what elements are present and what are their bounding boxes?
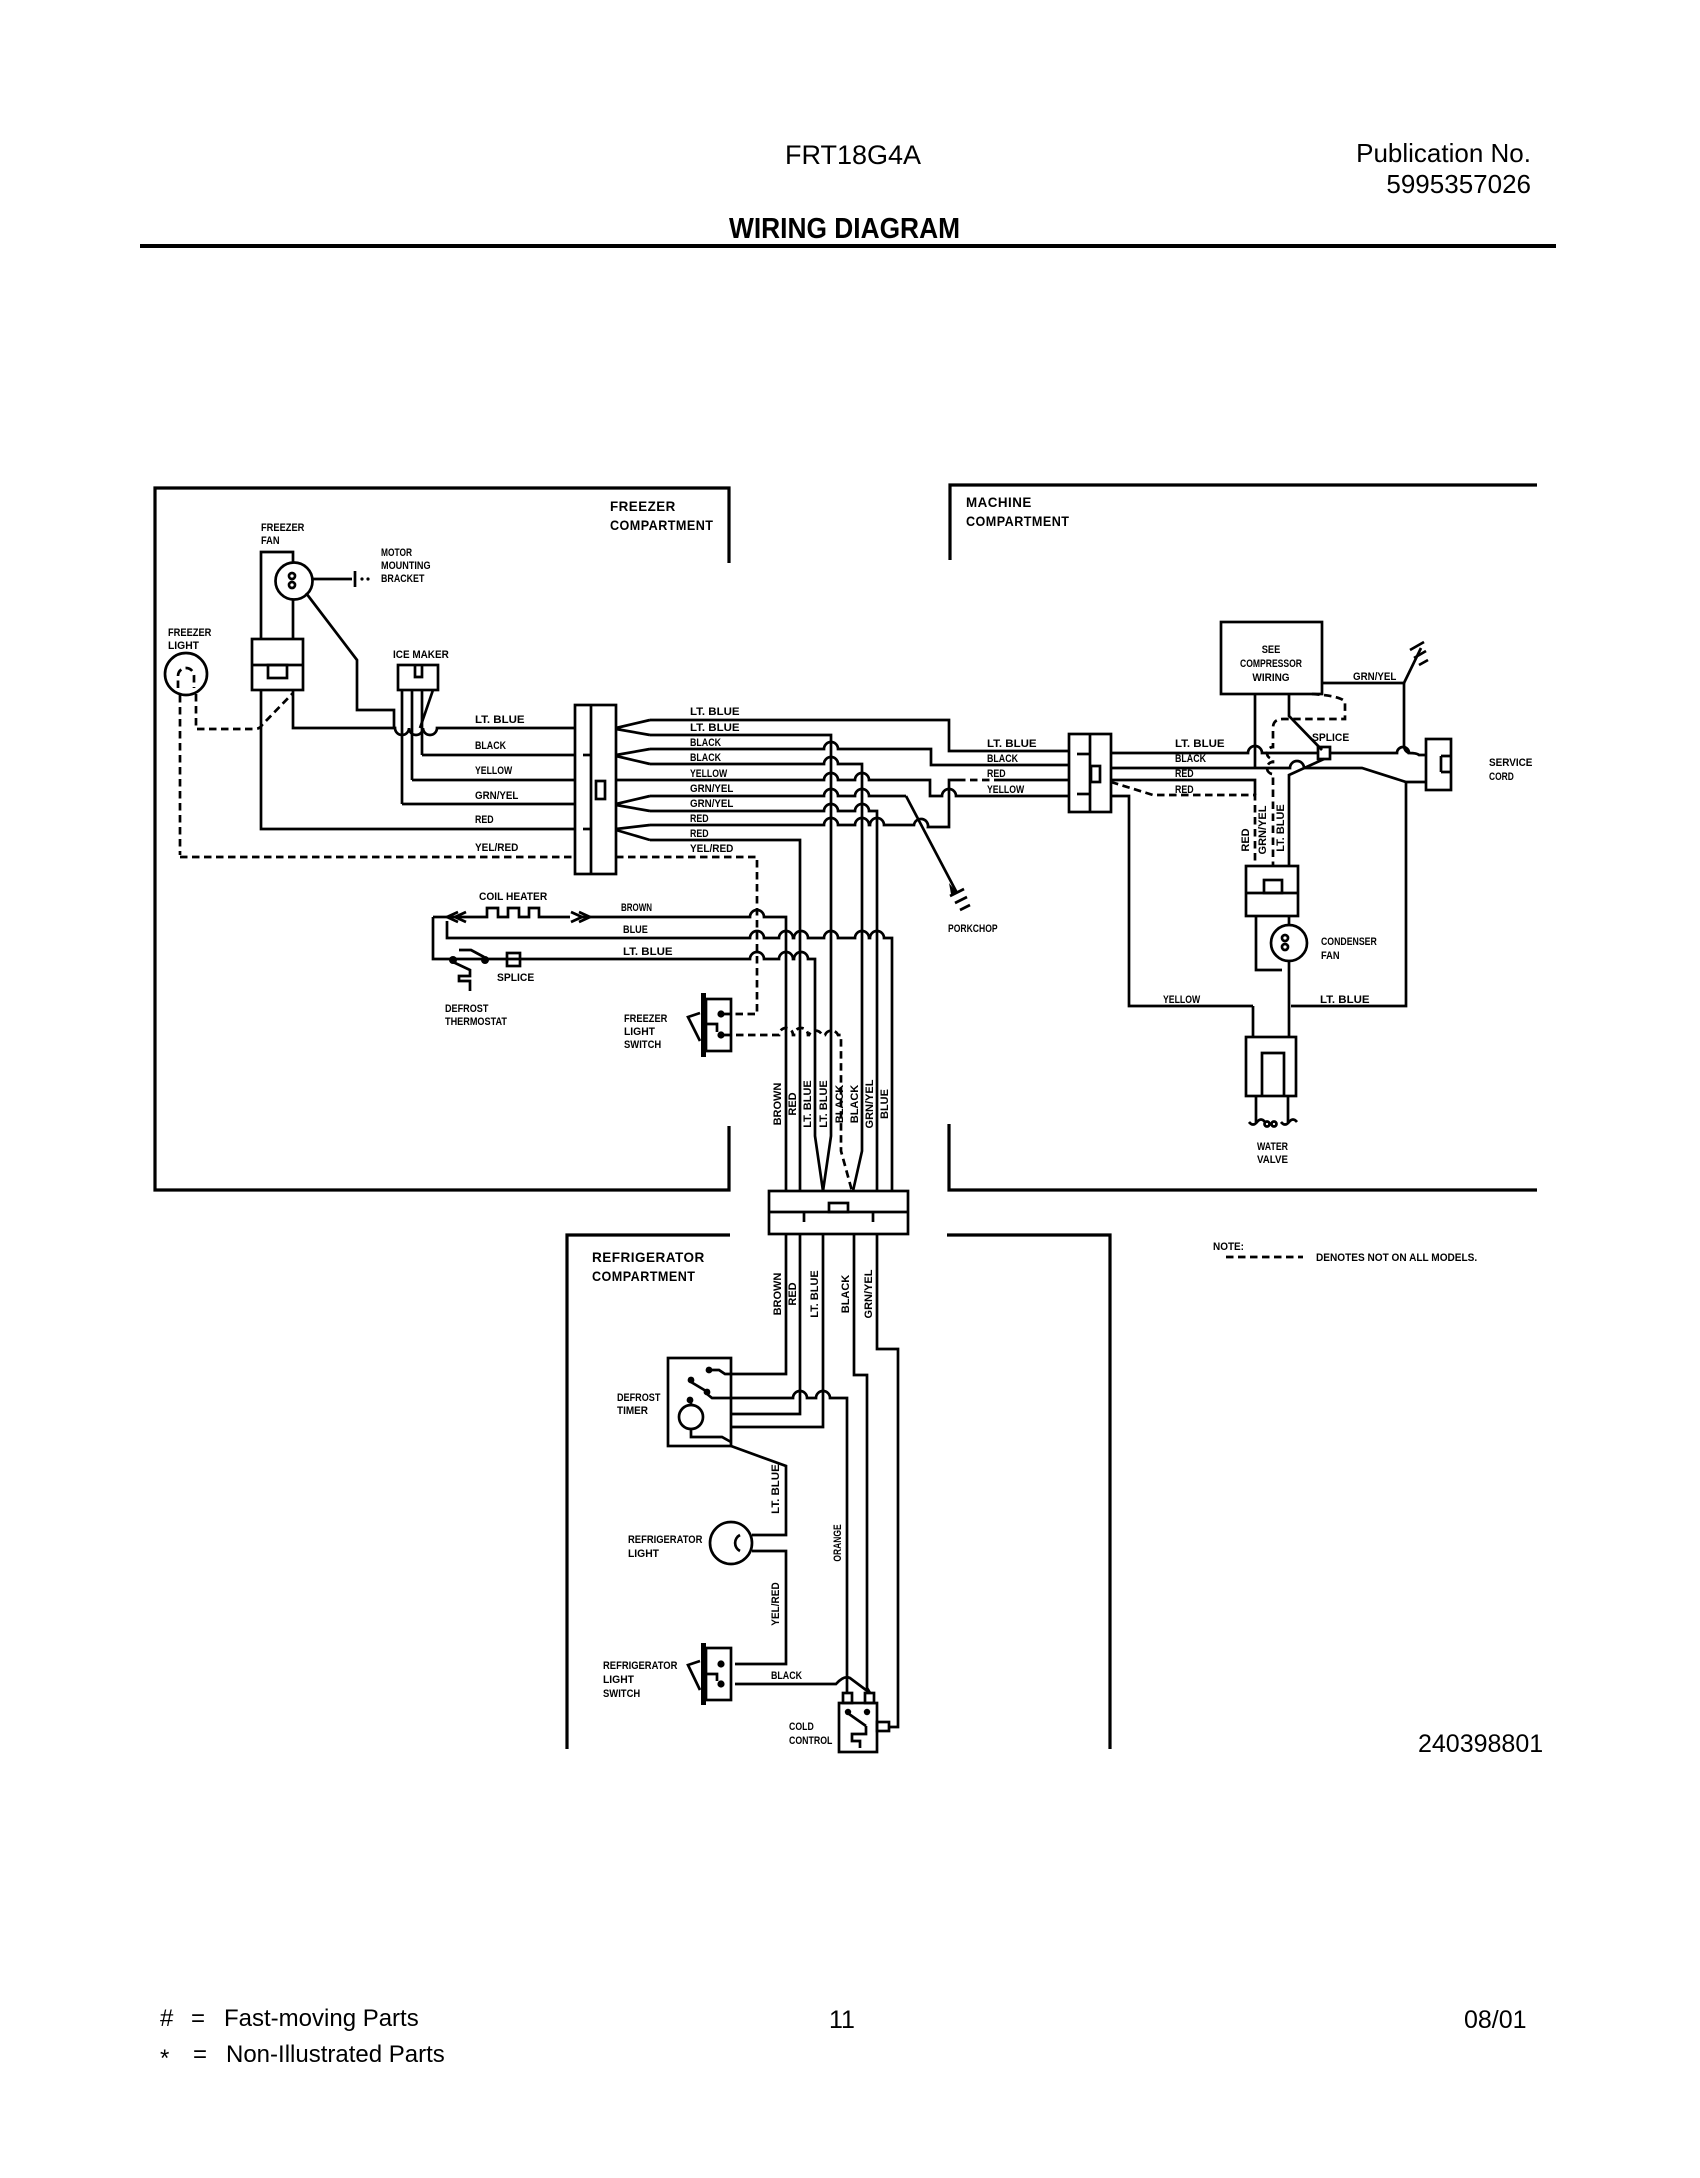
svg-text:DEFROST: DEFROST [445, 1003, 489, 1015]
svg-text:FREEZER: FREEZER [610, 498, 676, 514]
wire GRN/YEL 2 down to bundle [650, 804, 877, 1191]
wire YELLOW inner loop [1111, 796, 1253, 1006]
svg-text:YEL/RED: YEL/RED [475, 842, 518, 854]
svg-text:FAN: FAN [1321, 950, 1340, 962]
wire GRN/YEL 1 to porkchop [650, 789, 906, 796]
svg-text:YELLOW: YELLOW [475, 765, 513, 777]
coil heater element [447, 908, 570, 917]
svg-text:LIGHT: LIGHT [624, 1026, 655, 1038]
wire YEL/RED freezer run (dashed) [180, 856, 575, 859]
svg-text:ORANGE: ORANGE [832, 1524, 844, 1561]
dashed wire freezer light to YEL/RED run [179, 695, 182, 855]
svg-text:GRN/YEL: GRN/YEL [863, 1269, 875, 1318]
svg-text:BLUE: BLUE [623, 924, 648, 936]
wire LT. BLUE splice run [1111, 746, 1318, 753]
wire LT.BLUE 2 down to bundle [650, 735, 831, 1191]
svg-text:Non-Illustrated Parts: Non-Illustrated Parts [226, 2041, 445, 2068]
FREEZER LIGHT SWITCH [701, 993, 706, 1057]
wire YELLOW freezer run [412, 779, 575, 782]
svg-text:MOTOR: MOTOR [381, 547, 412, 559]
wire LT. BLUE freezer run [293, 690, 575, 735]
motor wire to ice maker [306, 593, 394, 728]
svg-text:240398801: 240398801 [1418, 1730, 1543, 1758]
wire BLUE to bundle [447, 921, 892, 1191]
svg-text:#: # [160, 2005, 174, 2032]
svg-text:11: 11 [829, 2006, 855, 2034]
svg-text:PORKCHOP: PORKCHOP [948, 923, 998, 935]
svg-text:LT. BLUE: LT. BLUE [770, 1464, 782, 1514]
wire BLACK freezer run [422, 754, 575, 757]
wire LT. BLUE below connector [731, 1234, 823, 1427]
bundle rotated labels [772, 1079, 891, 1128]
wire RED 2 down to bundle [650, 840, 800, 1191]
condenser fan [1271, 925, 1307, 961]
svg-text:LT. BLUE: LT. BLUE [1175, 738, 1225, 750]
dashed wire switch to BLACK bundle [724, 1028, 852, 1191]
svg-text:CORD: CORD [1489, 771, 1514, 783]
title rule [140, 244, 1556, 248]
svg-text:RED: RED [1175, 768, 1194, 780]
svg-text:CONTROL: CONTROL [789, 1735, 833, 1747]
svg-text:VALVE: VALVE [1257, 1154, 1288, 1166]
svg-text:NOTE:: NOTE: [1213, 1241, 1244, 1253]
svg-text:RED: RED [475, 814, 494, 826]
svg-text:Fast-moving Parts: Fast-moving Parts [224, 2005, 419, 2032]
freezer fan motor circle [276, 563, 313, 600]
svg-text:ICE MAKER: ICE MAKER [393, 649, 449, 661]
svg-text:SWITCH: SWITCH [624, 1039, 661, 1051]
svg-text:SPLICE: SPLICE [497, 972, 534, 984]
svg-text:LIGHT: LIGHT [603, 1674, 634, 1686]
freezer light [165, 653, 207, 695]
svg-text:LIGHT: LIGHT [168, 640, 199, 652]
svg-text:LT. BLUE: LT. BLUE [809, 1270, 821, 1317]
wire ORANGE from timer to cold control [707, 1391, 847, 1693]
svg-text:COIL HEATER: COIL HEATER [479, 891, 547, 903]
wire LT. BLUE inner loop [1291, 782, 1406, 1006]
wire LT.BLUE 1 to machine connector [650, 720, 1069, 751]
svg-text:YELLOW: YELLOW [690, 768, 728, 780]
svg-text:RED: RED [787, 1092, 799, 1115]
svg-text:BLACK: BLACK [834, 1085, 846, 1124]
cold control [839, 1703, 877, 1752]
splice square [1318, 747, 1330, 759]
rotated labels below connector [772, 1269, 875, 1318]
timer contacts [706, 1367, 713, 1374]
wire YEL/RED dashed to light switch [616, 857, 757, 1014]
svg-text:LT. BLUE: LT. BLUE [802, 1080, 814, 1127]
svg-text:BROWN: BROWN [772, 1273, 784, 1316]
porkchop pointer [906, 796, 957, 893]
refrigerator light [710, 1522, 752, 1564]
svg-text:LT. BLUE: LT. BLUE [690, 706, 740, 718]
wire BLACK to service cord [1111, 761, 1426, 782]
svg-text:LT. BLUE: LT. BLUE [690, 722, 740, 734]
svg-text:RED: RED [1240, 828, 1252, 851]
svg-text:LT. BLUE: LT. BLUE [1275, 804, 1287, 851]
wire RED freezer run [261, 690, 575, 829]
dashed wire freezer light to fan connector [196, 693, 293, 729]
svg-text:YEL/RED: YEL/RED [690, 843, 733, 855]
svg-text:SERVICE: SERVICE [1489, 757, 1532, 769]
svg-text:GRN/YEL: GRN/YEL [1353, 671, 1397, 683]
wire BROWN to bundle [580, 910, 786, 1191]
svg-text:WIRING: WIRING [1252, 672, 1289, 684]
svg-text:COMPRESSOR: COMPRESSOR [1240, 658, 1302, 670]
svg-text:FRT18G4A: FRT18G4A [785, 140, 921, 170]
svg-text:=: = [193, 2041, 207, 2068]
wire RED 1 up to machine connector [650, 780, 958, 827]
wire GRN/YEL dashed from compressor [1267, 694, 1345, 866]
ground symbol [1410, 642, 1428, 665]
ice maker pin 3 wire to BLACK [421, 690, 424, 755]
svg-text:MOUNTING: MOUNTING [381, 560, 431, 572]
rotated labels RED GRN/YEL LT.BLUE [1240, 804, 1287, 854]
svg-text:SPLICE: SPLICE [1312, 732, 1349, 744]
svg-text:=: = [191, 2005, 205, 2032]
svg-text:Publication No.: Publication No. [1356, 138, 1531, 168]
svg-text:COMPARTMENT: COMPARTMENT [592, 1268, 695, 1284]
svg-text:YEL/RED: YEL/RED [770, 1582, 782, 1625]
wire RED dashed from connector [1111, 782, 1255, 866]
service cord connector [1426, 739, 1451, 790]
svg-text:LT. BLUE: LT. BLUE [818, 1080, 830, 1127]
svg-text:SEE: SEE [1262, 644, 1281, 656]
splice on LT.BLUE [507, 953, 520, 966]
svg-text:08/01: 08/01 [1464, 2006, 1527, 2034]
svg-text:WATER: WATER [1257, 1141, 1288, 1153]
svg-text:GRN/YEL: GRN/YEL [864, 1079, 876, 1128]
svg-text:GRN/YEL: GRN/YEL [690, 798, 734, 810]
svg-text:REFRIGERATOR: REFRIGERATOR [628, 1534, 702, 1546]
svg-text:FREEZER: FREEZER [261, 522, 304, 534]
svg-text:*: * [160, 2045, 169, 2072]
freezer fan connector [252, 639, 303, 690]
wire GRN/YEL freezer run [402, 803, 575, 806]
svg-text:GRN/YEL: GRN/YEL [1257, 805, 1269, 854]
svg-text:BLACK: BLACK [849, 1085, 861, 1124]
fanout GRN/YEL pair [616, 796, 650, 811]
refrigerator connector [769, 1191, 908, 1234]
svg-text:TIMER: TIMER [617, 1405, 648, 1417]
svg-text:BRACKET: BRACKET [381, 573, 425, 585]
svg-text:RED: RED [987, 768, 1006, 780]
wire GRN/YEL to ground [1322, 648, 1421, 683]
svg-text:FREEZER: FREEZER [168, 627, 211, 639]
defrost timer box [668, 1358, 731, 1446]
wire BLACK below connector [854, 1234, 870, 1693]
fanout BLACK pair [616, 749, 650, 764]
svg-text:LT. BLUE: LT. BLUE [475, 714, 525, 726]
wire YEL/RED light to switch [735, 1551, 786, 1664]
svg-text:REFRIGERATOR: REFRIGERATOR [603, 1660, 677, 1672]
svg-text:5995357026: 5995357026 [1386, 169, 1531, 199]
defrost thermostat contacts [449, 956, 457, 964]
timer motor [679, 1405, 703, 1429]
svg-text:CONDENSER: CONDENSER [1321, 936, 1377, 948]
compressor relay box [1246, 866, 1298, 916]
wire BLACK 2 down to bundle [650, 757, 862, 1191]
svg-text:BLUE: BLUE [879, 1089, 891, 1119]
svg-text:BLACK: BLACK [690, 737, 721, 749]
freezer connector [575, 705, 616, 874]
svg-text:GRN/YEL: GRN/YEL [475, 790, 519, 802]
freezer fan body [261, 552, 293, 639]
water valve [1253, 1006, 1289, 1037]
wire GRN/YEL ground stub down to service line [1404, 683, 1409, 753]
svg-text:FREEZER: FREEZER [624, 1013, 667, 1025]
refrigerator compartment border [567, 1235, 730, 1749]
svg-text:REFRIGERATOR: REFRIGERATOR [592, 1249, 705, 1265]
svg-text:BLACK: BLACK [1175, 753, 1206, 765]
svg-text:GRN/YEL: GRN/YEL [690, 783, 734, 795]
svg-text:MACHINE: MACHINE [966, 494, 1032, 510]
svg-text:DEFROST: DEFROST [617, 1392, 661, 1404]
machine compartment border [950, 485, 1537, 560]
ice maker pin 2 wire to YELLOW [411, 690, 414, 780]
fanout RED pair [616, 825, 650, 840]
svg-text:LT. BLUE: LT. BLUE [1320, 994, 1370, 1006]
wire LT. BLUE splice down to relay [1289, 759, 1324, 866]
machine connector [1069, 734, 1111, 812]
SEE COMPRESSOR WIRING box [1221, 622, 1322, 694]
svg-text:WIRING DIAGRAM: WIRING DIAGRAM [729, 213, 960, 245]
svg-text:COLD: COLD [789, 1721, 814, 1733]
svg-text:THERMOSTAT: THERMOSTAT [445, 1016, 507, 1028]
compressor right pin to splice [1289, 694, 1322, 750]
wire GRN/YEL below connector [877, 1234, 898, 1727]
svg-text:LIGHT: LIGHT [628, 1548, 659, 1560]
ice maker pin 1 wire to GRN/YEL [401, 690, 404, 804]
wire BLACK 1 to machine connector [650, 742, 1069, 765]
svg-text:COMPARTMENT: COMPARTMENT [610, 517, 713, 533]
freezer compartment border [155, 488, 729, 1190]
svg-text:BLACK: BLACK [475, 740, 506, 752]
motor mounting bracket lead [312, 578, 352, 581]
ice maker [398, 665, 438, 690]
svg-text:BLACK: BLACK [771, 1670, 802, 1682]
svg-text:RED: RED [690, 828, 709, 840]
ice maker pin 4 wire to LT.BLUE [420, 690, 433, 728]
wire RED solid turning down [1111, 780, 1255, 795]
svg-text:YELLOW: YELLOW [1163, 994, 1201, 1006]
wire BLACK switch to cold control [735, 1677, 870, 1693]
relay leads down [1256, 916, 1282, 970]
wire BROWN below connector [731, 1234, 786, 1374]
fanout LT. BLUE pair [616, 720, 650, 735]
refrigerator light switch [701, 1643, 706, 1705]
svg-text:BLACK: BLACK [987, 753, 1018, 765]
wire LT. BLUE heater run to bundle [433, 917, 823, 1191]
wire YELLOW to machine connector [616, 773, 1069, 796]
svg-text:BLACK: BLACK [690, 752, 721, 764]
svg-text:RED: RED [787, 1282, 799, 1305]
svg-text:BROWN: BROWN [772, 1083, 784, 1126]
svg-text:LT. BLUE: LT. BLUE [623, 946, 673, 958]
svg-text:RED: RED [690, 813, 709, 825]
wire RED below connector [731, 1234, 800, 1414]
svg-text:COMPARTMENT: COMPARTMENT [966, 513, 1069, 529]
svg-text:BLACK: BLACK [840, 1275, 852, 1314]
svg-text:YELLOW: YELLOW [987, 784, 1025, 796]
svg-text:LT. BLUE: LT. BLUE [987, 738, 1037, 750]
wire LT.BLUE from timer to refrigerator light [731, 1446, 786, 1535]
compressor left pin to BLACK [1254, 694, 1257, 768]
svg-text:SWITCH: SWITCH [603, 1688, 640, 1700]
svg-text:DENOTES NOT ON ALL MODELS.: DENOTES NOT ON ALL MODELS. [1316, 1252, 1477, 1264]
svg-text:FAN: FAN [261, 535, 280, 547]
svg-text:BROWN: BROWN [621, 902, 652, 914]
